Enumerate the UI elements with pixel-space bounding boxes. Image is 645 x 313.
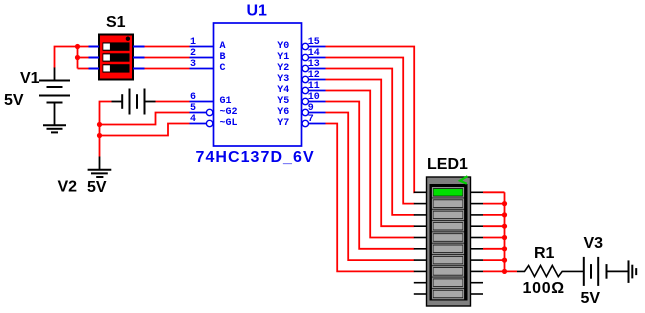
svg-text:100Ω: 100Ω [523, 280, 565, 297]
svg-text:15: 15 [308, 37, 320, 48]
wire Y1 to LED1 pin 2 [326, 58, 415, 204]
svg-text:Y2: Y2 [277, 63, 289, 74]
junction dot V2 net 1 [97, 122, 102, 127]
switch S1 (DIP-3) [89, 35, 145, 80]
resistor R1 [517, 266, 584, 277]
svg-text:Y1: Y1 [277, 52, 289, 63]
svg-text:5V: 5V [87, 179, 107, 196]
wire V1 to node A [55, 47, 89, 68]
svg-text:5: 5 [190, 103, 196, 114]
svg-text:13: 13 [308, 59, 320, 70]
wire to ~G2 [100, 113, 190, 125]
wire Y2 to LED1 pin 3 [326, 69, 415, 215]
pin 2 (B) of U1 [190, 48, 226, 63]
bus wire to R1 net [505, 192, 518, 271]
svg-text:V2: V2 [58, 179, 78, 196]
pin 3 (C) of U1 [190, 59, 226, 74]
svg-text:~G2: ~G2 [220, 107, 238, 118]
wire LED1 right pin row 3 to bus [483, 214, 505, 216]
wire LED1 right pin row 5 to bus [483, 237, 505, 239]
svg-text:5V: 5V [581, 290, 601, 307]
junction dot bus row 5 [502, 235, 507, 240]
svg-text:A: A [220, 41, 226, 52]
junction dot node A [75, 44, 80, 49]
LED1 bargraph display [414, 176, 483, 306]
svg-text:LED1: LED1 [427, 156, 468, 173]
wire Y3 to LED1 pin 4 [326, 80, 415, 227]
wire V2 to ground [99, 136, 101, 157]
wire to ~GL [100, 124, 190, 136]
wire node A vertical [77, 47, 79, 69]
pin 14 (Y1) of U1 [277, 48, 325, 63]
wire Y4 to LED1 pin 5 [326, 91, 415, 238]
junction dot bus row 2 [502, 201, 507, 206]
svg-text:12: 12 [308, 70, 320, 81]
junction dot bus row 7 [502, 258, 507, 263]
wire LED1 right pin row 6 to bus [483, 248, 505, 250]
wire node to S1 pin3 [78, 68, 89, 70]
wire LED1 right pin row 8 to bus [483, 270, 505, 272]
wire LED1 right pin row 1 to bus [483, 191, 505, 193]
svg-text:Y4: Y4 [277, 85, 289, 96]
svg-text:14: 14 [308, 48, 320, 59]
svg-text:G1: G1 [220, 96, 232, 107]
pin 4 (~GL) of U1 [190, 114, 238, 129]
junction dot node B [75, 55, 80, 60]
pin 6 (G1) of U1 [190, 92, 232, 107]
svg-text:10: 10 [308, 92, 320, 103]
junction dot bus row 4 [502, 224, 507, 229]
battery V3 [584, 257, 629, 286]
junction dot bus row 3 [502, 212, 507, 217]
wire Y0 to LED1 pin 1 [326, 47, 415, 193]
wire S1 to U1 pin C [145, 68, 190, 70]
svg-text:S1: S1 [106, 14, 126, 31]
svg-text:Y5: Y5 [277, 96, 289, 107]
battery V1 [39, 67, 70, 125]
svg-text:1: 1 [190, 37, 196, 48]
pin 1 (A) of U1 [190, 37, 226, 52]
pin 7 (Y7) of U1 [277, 114, 325, 129]
svg-text:2: 2 [190, 48, 196, 59]
ground (V1) [43, 125, 66, 132]
svg-text:Y7: Y7 [277, 118, 289, 129]
pin 10 (Y5) of U1 [277, 92, 325, 107]
svg-text:5V: 5V [4, 92, 24, 109]
svg-text:4: 4 [190, 114, 196, 125]
battery V2 [112, 89, 156, 115]
junction dot V2 net 2 [97, 133, 102, 138]
junction dot bus row 8 [502, 269, 507, 274]
wire LED1 right pin row 2 to bus [483, 203, 505, 205]
wire Y5 to LED1 pin 6 [326, 102, 415, 249]
svg-text:6: 6 [190, 92, 196, 103]
pin 9 (Y6) of U1 [277, 103, 325, 118]
svg-text:R1: R1 [534, 245, 555, 262]
svg-text:C: C [220, 63, 226, 74]
svg-text:Y3: Y3 [277, 74, 289, 85]
junction dot bus row 6 [502, 246, 507, 251]
wire LED1 right pin row 7 to bus [483, 259, 505, 261]
svg-text:74HC137D_6V: 74HC137D_6V [196, 149, 315, 166]
wire Y7 to LED1 pin 8 [326, 124, 415, 272]
wire S1 to U1 pin A [145, 46, 190, 48]
ground (V3) [629, 260, 637, 283]
wire LED1 right pin row 4 to bus [483, 225, 505, 227]
IC U1 box [214, 23, 302, 146]
pin 5 (~G2) of U1 [190, 103, 238, 118]
svg-text:Y0: Y0 [277, 41, 289, 52]
wire Y6 to LED1 pin 7 [326, 113, 415, 261]
svg-text:Y6: Y6 [277, 107, 289, 118]
ground (V2) [88, 157, 112, 178]
svg-text:7: 7 [308, 114, 314, 125]
svg-text:B: B [220, 52, 226, 63]
wire V2 to G1 [156, 101, 190, 103]
svg-text:~GL: ~GL [220, 118, 238, 129]
svg-text:V3: V3 [584, 235, 604, 252]
svg-text:11: 11 [308, 81, 320, 92]
pin 12 (Y3) of U1 [277, 70, 325, 85]
svg-text:9: 9 [308, 103, 314, 114]
svg-text:U1: U1 [247, 3, 268, 20]
svg-text:V1: V1 [20, 70, 40, 87]
svg-text:3: 3 [190, 59, 196, 70]
pin 15 (Y0) of U1 [277, 37, 325, 52]
pin 13 (Y2) of U1 [277, 59, 325, 74]
wire S1 to U1 pin B [145, 57, 190, 59]
pin 11 (Y4) of U1 [277, 81, 325, 96]
wire V2 minus down [100, 102, 112, 136]
wire node to S1 pin2 [78, 57, 89, 59]
